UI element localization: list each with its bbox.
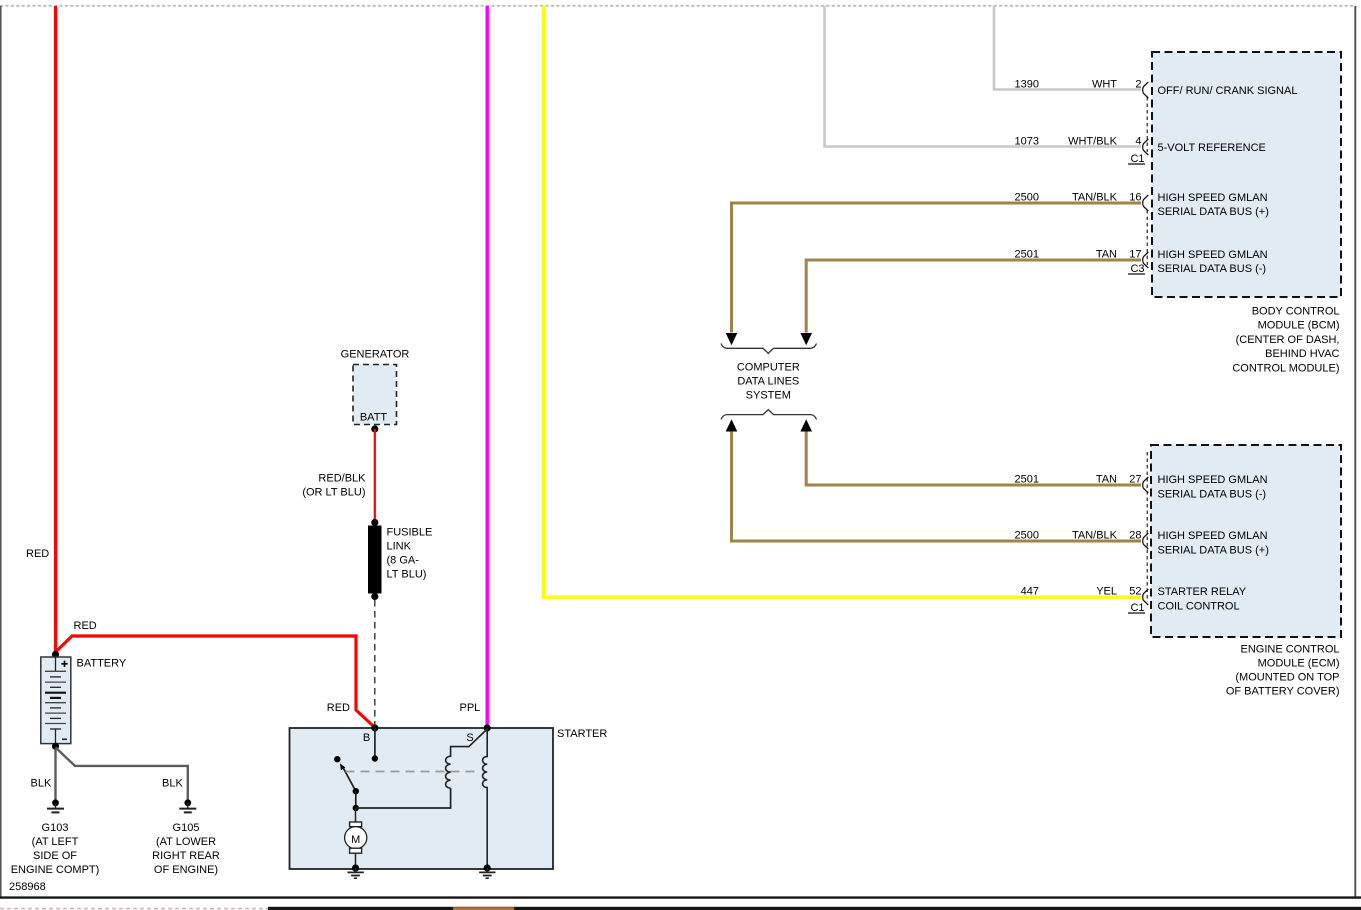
mechanical linkage (dashed) bbox=[346, 771, 478, 773]
svg-text:SERIAL DATA BUS (+): SERIAL DATA BUS (+) bbox=[1158, 545, 1269, 557]
svg-text:GENERATOR: GENERATOR bbox=[341, 349, 410, 361]
svg-text:RED: RED bbox=[327, 702, 350, 714]
svg-text:27: 27 bbox=[1129, 474, 1141, 486]
svg-text:(8 GA-: (8 GA- bbox=[387, 555, 420, 567]
svg-text:TAN/BLK: TAN/BLK bbox=[1072, 192, 1118, 204]
node battery positive terminal bbox=[52, 651, 59, 658]
label 1073 WHT/BLK pin 4 bbox=[1015, 136, 1142, 148]
svg-text:(AT LEFT: (AT LEFT bbox=[32, 836, 79, 848]
ground G105 bbox=[152, 799, 220, 876]
svg-text:ENGINE CONTROL: ENGINE CONTROL bbox=[1240, 643, 1339, 655]
label BODY CONTROL MODULE (BCM) bbox=[1232, 306, 1339, 375]
svg-text:RED: RED bbox=[26, 548, 49, 560]
switch starter solenoid contact bbox=[334, 756, 359, 811]
wire TAN/BLK 2500 ECM serial data bus + bbox=[732, 432, 1142, 542]
svg-text:(OR LT BLU): (OR LT BLU) bbox=[302, 487, 365, 499]
label 2501 TAN pin 27 bbox=[1015, 474, 1142, 486]
wire BLK battery negative to G103 bbox=[31, 749, 56, 800]
svg-text:RED/BLK: RED/BLK bbox=[318, 473, 366, 485]
svg-text:ENGINE COMPT): ENGINE COMPT) bbox=[11, 864, 100, 876]
svg-text:YEL: YEL bbox=[1096, 586, 1117, 598]
svg-text:HIGH SPEED GMLAN: HIGH SPEED GMLAN bbox=[1158, 474, 1268, 486]
brace over computer data lines system bbox=[721, 344, 817, 354]
svg-text:G103: G103 bbox=[42, 822, 69, 834]
svg-text:52: 52 bbox=[1129, 586, 1141, 598]
wire RED battery positive feed (vertical from top) bbox=[26, 6, 56, 652]
off-page arrow to computer data lines (right down) bbox=[800, 333, 812, 345]
svg-text:COMPUTER: COMPUTER bbox=[737, 362, 800, 374]
svg-text:2: 2 bbox=[1135, 79, 1141, 91]
svg-text:BATT: BATT bbox=[360, 412, 388, 424]
pin 4 hook bbox=[1143, 139, 1149, 155]
svg-text:5-VOLT REFERENCE: 5-VOLT REFERENCE bbox=[1158, 142, 1266, 154]
svg-text:2501: 2501 bbox=[1015, 474, 1039, 486]
node generator BATT terminal bbox=[371, 425, 378, 432]
svg-text:LT BLU): LT BLU) bbox=[387, 569, 427, 581]
battery BATTERY bbox=[41, 657, 127, 744]
svg-text:G105: G105 bbox=[173, 822, 200, 834]
pin 2 hook bbox=[1143, 82, 1149, 98]
svg-text:MODULE (BCM): MODULE (BCM) bbox=[1258, 320, 1340, 332]
wire dashed fusible link to starter B bbox=[374, 600, 376, 725]
svg-text:RIGHT REAR: RIGHT REAR bbox=[152, 850, 220, 862]
off-page arrow to computer data lines (left down) bbox=[726, 333, 738, 345]
wire TAN/BLK 2500 BCM serial data bus + bbox=[732, 203, 1142, 333]
connector C1 BCM dashed line bbox=[1128, 97, 1147, 165]
svg-text:2500: 2500 bbox=[1015, 530, 1039, 542]
generator GENERATOR (partial) bbox=[341, 349, 410, 425]
next page top edge strip bbox=[0, 907, 1361, 910]
wire WHT/BLK 1073 5-volt reference bbox=[825, 6, 1142, 147]
svg-text:(MOUNTED ON TOP: (MOUNTED ON TOP bbox=[1235, 672, 1339, 684]
coil hold-in winding bbox=[483, 728, 488, 865]
svg-text:28: 28 bbox=[1129, 530, 1141, 542]
svg-text:SIDE OF: SIDE OF bbox=[33, 850, 77, 862]
pin 16 hook bbox=[1143, 195, 1149, 211]
svg-text:TAN: TAN bbox=[1096, 474, 1117, 486]
starter assembly STARTER bbox=[290, 728, 608, 869]
pin 28 hook bbox=[1143, 533, 1149, 549]
label 1390 WHT pin 2 bbox=[1015, 79, 1142, 91]
label 2500 TAN/BLK pin 28 bbox=[1015, 530, 1142, 542]
svg-text:SERIAL DATA BUS (-): SERIAL DATA BUS (-) bbox=[1158, 489, 1267, 501]
node COMPUTER DATA LINES SYSTEM bbox=[737, 362, 800, 402]
svg-text:COIL CONTROL: COIL CONTROL bbox=[1158, 601, 1240, 613]
ground G103 bbox=[11, 799, 100, 876]
fusible link (8 GA LT BLU) bbox=[368, 519, 432, 600]
svg-text:2501: 2501 bbox=[1015, 249, 1039, 261]
svg-text:MODULE (ECM): MODULE (ECM) bbox=[1258, 657, 1340, 669]
svg-text:HIGH SPEED GMLAN: HIGH SPEED GMLAN bbox=[1158, 249, 1268, 261]
svg-text:WHT/BLK: WHT/BLK bbox=[1068, 136, 1118, 148]
svg-text:RED: RED bbox=[74, 620, 97, 632]
svg-text:4: 4 bbox=[1135, 136, 1141, 148]
svg-text:B: B bbox=[363, 732, 370, 744]
svg-text:BATTERY: BATTERY bbox=[77, 658, 127, 670]
pin 52 hook bbox=[1143, 589, 1149, 605]
svg-text:BODY CONTROL: BODY CONTROL bbox=[1252, 306, 1340, 318]
brace under computer data lines system bbox=[721, 410, 817, 420]
svg-text:HIGH SPEED GMLAN: HIGH SPEED GMLAN bbox=[1158, 530, 1268, 542]
pin 27 hook bbox=[1143, 477, 1149, 493]
svg-text:447: 447 bbox=[1021, 586, 1039, 598]
connector C1 ECM dashed line bbox=[1128, 452, 1147, 614]
off-page arrow from computer data lines (right up) bbox=[800, 419, 812, 431]
svg-text:1073: 1073 bbox=[1015, 136, 1039, 148]
svg-text:17: 17 bbox=[1129, 249, 1141, 261]
ground starter solenoid bbox=[479, 864, 495, 878]
svg-text:SERIAL DATA BUS (+): SERIAL DATA BUS (+) bbox=[1158, 206, 1269, 218]
motor M starter motor bbox=[345, 808, 367, 865]
wire WHT 1390 off/run/crank signal bbox=[994, 6, 1141, 90]
svg-text:M: M bbox=[351, 834, 360, 846]
connector C3 BCM dashed line bbox=[1128, 210, 1147, 275]
svg-text:BEHIND HVAC: BEHIND HVAC bbox=[1265, 348, 1339, 360]
wire BLK battery negative to G105 bbox=[56, 748, 188, 801]
node starter S terminal bbox=[466, 724, 490, 744]
svg-text:STARTER: STARTER bbox=[557, 728, 607, 740]
svg-text:C1: C1 bbox=[1130, 153, 1144, 165]
label 2501 TAN pin 17 bbox=[1015, 249, 1142, 261]
module ECM engine control module box bbox=[1151, 445, 1341, 637]
svg-text:C1: C1 bbox=[1130, 602, 1144, 614]
node starter B terminal bbox=[363, 724, 379, 744]
wire TAN 2501 ECM serial data bus - bbox=[806, 432, 1141, 486]
svg-text:OF ENGINE): OF ENGINE) bbox=[154, 864, 218, 876]
ECM pin function labels bbox=[1158, 474, 1269, 613]
wire RED battery positive to starter B terminal bbox=[56, 620, 375, 727]
wire PPL starter solenoid feed bbox=[460, 6, 488, 725]
pin 17 hook bbox=[1143, 252, 1149, 268]
svg-text:BLK: BLK bbox=[162, 778, 183, 790]
wire TAN 2501 BCM serial data bus - bbox=[806, 260, 1141, 333]
label ENGINE CONTROL MODULE (ECM) bbox=[1226, 643, 1340, 697]
svg-text:FUSIBLE: FUSIBLE bbox=[387, 527, 433, 539]
svg-text:(AT LOWER: (AT LOWER bbox=[156, 836, 216, 848]
wire YEL 447 starter relay coil control bbox=[543, 6, 1141, 597]
label 2500 TAN/BLK pin 16 bbox=[1015, 192, 1142, 204]
svg-text:SYSTEM: SYSTEM bbox=[746, 390, 791, 402]
node battery negative terminal bbox=[52, 743, 59, 750]
svg-text:BLK: BLK bbox=[31, 778, 52, 790]
svg-text:258968: 258968 bbox=[9, 881, 46, 893]
wire switch to pull-in winding bbox=[356, 788, 451, 808]
svg-text:TAN: TAN bbox=[1096, 249, 1117, 261]
svg-text:STARTER RELAY: STARTER RELAY bbox=[1158, 586, 1247, 598]
module BCM body control module box bbox=[1152, 52, 1341, 297]
svg-text:DATA LINES: DATA LINES bbox=[737, 376, 799, 388]
svg-text:TAN/BLK: TAN/BLK bbox=[1072, 530, 1118, 542]
svg-text:1390: 1390 bbox=[1015, 79, 1039, 91]
svg-text:WHT: WHT bbox=[1092, 79, 1117, 91]
svg-text:CONTROL MODULE): CONTROL MODULE) bbox=[1232, 362, 1339, 374]
off-page arrow from computer data lines (left up) bbox=[726, 419, 738, 431]
svg-text:HIGH SPEED GMLAN: HIGH SPEED GMLAN bbox=[1158, 192, 1268, 204]
svg-text:PPL: PPL bbox=[460, 702, 481, 714]
svg-text:LINK: LINK bbox=[387, 541, 412, 553]
wire RED/BLK generator output bbox=[302, 429, 374, 521]
BCM pin function labels bbox=[1158, 85, 1298, 275]
coil pull-in winding bbox=[446, 729, 488, 788]
svg-text:OF BATTERY COVER): OF BATTERY COVER) bbox=[1226, 686, 1340, 698]
svg-text:16: 16 bbox=[1129, 192, 1141, 204]
svg-text:SERIAL DATA BUS (-): SERIAL DATA BUS (-) bbox=[1158, 263, 1267, 275]
svg-text:(CENTER OF DASH,: (CENTER OF DASH, bbox=[1236, 334, 1340, 346]
svg-text:OFF/ RUN/ CRANK SIGNAL: OFF/ RUN/ CRANK SIGNAL bbox=[1158, 85, 1298, 97]
label 447 YEL pin 52 bbox=[1021, 586, 1142, 598]
ground starter motor case bbox=[347, 864, 363, 878]
wire starter B stub bbox=[372, 728, 378, 762]
svg-text:2500: 2500 bbox=[1015, 192, 1039, 204]
svg-text:C3: C3 bbox=[1130, 263, 1144, 275]
